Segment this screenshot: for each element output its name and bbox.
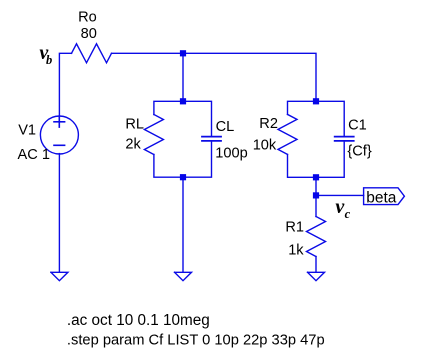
V1 minus terminal mark (54, 144, 65, 146)
junction RL/CL top (180, 98, 186, 104)
ground under RL/CL (175, 272, 192, 280)
wire V1 to ground (58, 154, 60, 273)
svg-text:AC 1: AC 1 (18, 147, 50, 163)
svg-text:.step param Cf LIST 0 10p 22p: .step param Cf LIST 0 10p 22p 33p 47p (67, 333, 325, 349)
svg-text:RL: RL (125, 117, 144, 133)
wire junction A down to RL/CL rail (182, 53, 184, 101)
svg-text:2k: 2k (125, 137, 141, 153)
wire RL/CL junction to ground (182, 177, 184, 272)
resistor R2 (278, 114, 297, 154)
wire Ro to right corner (112, 53, 317, 101)
svg-text:.ac oct 10 0.1 10meg: .ac oct 10 0.1 10meg (67, 312, 210, 329)
svg-text:c: c (345, 207, 351, 221)
junction RL/CL bottom (180, 174, 186, 180)
wire RL/CL bottom rail (154, 141, 212, 177)
ground under V1 (51, 272, 68, 280)
svg-text:100p: 100p (215, 146, 247, 162)
resistor R1 (307, 195, 326, 272)
resistor Ro (72, 44, 112, 63)
svg-text:beta: beta (366, 189, 397, 206)
svg-text:V1: V1 (18, 122, 36, 138)
beta output flag (364, 188, 405, 205)
capacitor CL (201, 137, 222, 141)
junction R2/C1 bottom (313, 174, 319, 180)
ground under R1 (308, 272, 325, 280)
wire bottom rail junction to node vc (315, 177, 317, 195)
junction node vc (313, 192, 319, 198)
junction node A (180, 50, 186, 56)
svg-text:CL: CL (216, 119, 235, 135)
capacitor C1 (334, 137, 355, 141)
wire R2/C1 top rail (288, 101, 345, 136)
junction R2/C1 top (313, 98, 319, 104)
svg-text:C1: C1 (348, 117, 367, 133)
wire top-left corner to Ro (59, 53, 71, 116)
svg-text:Ro: Ro (78, 10, 97, 26)
svg-text:R2: R2 (259, 116, 278, 132)
wire node vc to beta flag (316, 194, 364, 196)
V1 plus terminal mark (54, 121, 65, 123)
svg-text:10k: 10k (253, 137, 277, 153)
svg-text:1k: 1k (288, 242, 304, 258)
svg-text:R1: R1 (285, 220, 304, 236)
wire R2/C1 bottom rail (288, 141, 345, 177)
svg-text:80: 80 (81, 26, 97, 42)
voltage source V1 (40, 116, 78, 154)
resistor RL (144, 115, 163, 155)
wire RL/CL top rail (154, 101, 212, 136)
svg-text:b: b (46, 53, 52, 67)
svg-text:{Cf}: {Cf} (347, 144, 371, 160)
